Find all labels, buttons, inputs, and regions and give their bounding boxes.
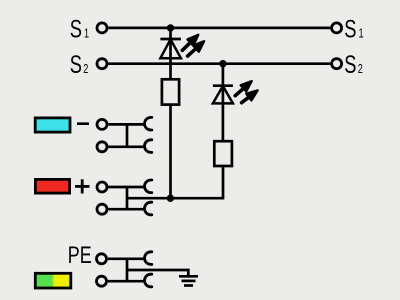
svg-text:S: S: [70, 15, 82, 44]
svg-text:S: S: [344, 50, 356, 79]
svg-text:S: S: [344, 15, 356, 44]
svg-text:1: 1: [84, 27, 89, 41]
svg-text:PE: PE: [68, 241, 92, 268]
svg-text:1: 1: [359, 27, 364, 41]
svg-text:2: 2: [83, 63, 88, 77]
svg-text:S: S: [70, 50, 82, 79]
svg-text:2: 2: [358, 63, 363, 77]
